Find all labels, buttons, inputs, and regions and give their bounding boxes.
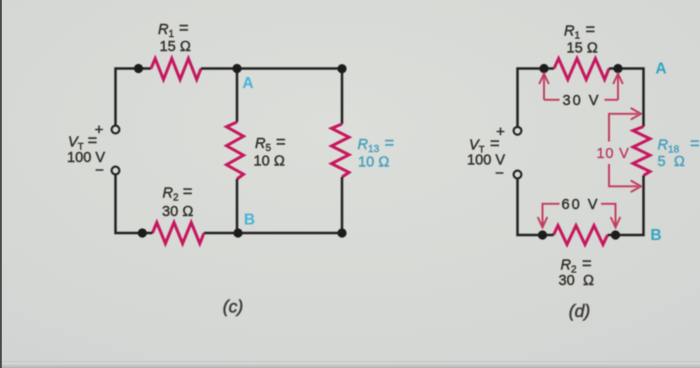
svg-text:100 V: 100 V xyxy=(67,150,105,166)
source VT negative terminal (c) open circle xyxy=(112,167,120,175)
resistor R13 (c) zigzag xyxy=(332,124,350,177)
junction dot (d) top-left xyxy=(539,64,548,73)
svg-text:=: = xyxy=(183,183,193,201)
svg-text:(c): (c) xyxy=(223,297,243,317)
junction dot (c) bottom-right corner xyxy=(337,228,346,237)
value label R1 = 15 ohm (d) xyxy=(564,21,598,57)
wire: (c) top rail from R1 to top-right corner xyxy=(201,67,342,70)
wire: (c) middle branch upper xyxy=(236,69,239,123)
svg-text:100 V: 100 V xyxy=(467,153,505,169)
svg-text:5 Ω: 5 Ω xyxy=(658,154,685,170)
resistor R2 (c) zigzag xyxy=(153,223,205,244)
wire: (c) middle branch lower xyxy=(236,179,239,233)
svg-text:=: = xyxy=(490,135,500,153)
voltage annotation 60 V arrows above R2 (d) xyxy=(538,204,621,228)
resistor R18 (d) zigzag xyxy=(633,127,650,176)
svg-text:=: = xyxy=(88,132,98,150)
svg-text:10 Ω: 10 Ω xyxy=(358,155,390,171)
svg-text:10 V: 10 V xyxy=(597,146,630,162)
wire: (c) right rail upper xyxy=(341,69,344,125)
voltage annotation 30 V arrows under R1 (d) xyxy=(539,74,623,100)
svg-text:=: = xyxy=(690,135,700,153)
value label R13 = 10 ohm (c) blue xyxy=(358,135,395,171)
svg-text:10 Ω: 10 Ω xyxy=(254,153,286,169)
svg-text:30 Ω: 30 Ω xyxy=(559,273,595,289)
source VT negative terminal (d) open circle xyxy=(514,171,522,179)
resistor R1 (d) zigzag xyxy=(554,59,609,80)
value label R18 = 5 ohm (d) blue xyxy=(658,135,700,170)
svg-text:A: A xyxy=(655,61,666,78)
wire: (c) bottom rail left of R2 + left rail lower xyxy=(116,175,153,233)
junction dot (d) bottom-right xyxy=(611,230,620,239)
resistor R5 (c) zigzag xyxy=(227,122,244,179)
resistor R2 (d) zigzag xyxy=(554,226,608,245)
junction dot (c) bottom-left xyxy=(138,228,147,237)
svg-text:=: = xyxy=(179,20,189,38)
wire: (c) bottom rail right of R2 xyxy=(204,232,342,235)
source VT positive terminal (d) open circle xyxy=(514,127,522,135)
svg-text:30 V: 30 V xyxy=(563,93,601,109)
svg-text:B: B xyxy=(244,212,255,229)
value label R5 = 10 ohm (c) xyxy=(254,134,286,170)
source VT positive terminal (c) open circle xyxy=(112,126,120,134)
svg-text:B: B xyxy=(650,227,661,244)
svg-text:=: = xyxy=(582,255,592,273)
svg-text:15 Ω: 15 Ω xyxy=(567,41,599,57)
wire: circuit (c) left rail upper + top-left corner xyxy=(116,69,152,126)
source label VT = 100 V (c) xyxy=(67,132,105,166)
junction dot (d) top-right xyxy=(613,64,622,73)
svg-text:A: A xyxy=(242,75,253,92)
wire: (d) bottom rail left of R2 + left rail lower xyxy=(518,178,554,235)
svg-text:30 Ω: 30 Ω xyxy=(162,204,194,220)
svg-text:=: = xyxy=(586,21,596,39)
value label R2 = 30 ohm (d) xyxy=(559,255,595,289)
voltage annotation 10 V bracket arrows toward R18 (d) xyxy=(609,108,641,192)
value label R1 = 15 ohm (c) xyxy=(158,20,191,56)
junction dot (d) bottom-left xyxy=(538,230,547,239)
svg-text:60 V: 60 V xyxy=(562,197,600,213)
wire: (d) right rail lower + bottom-right corner xyxy=(608,176,644,236)
svg-text:15 Ω: 15 Ω xyxy=(160,39,192,55)
resistor R1 (c) zigzag xyxy=(151,59,201,80)
junction dot (c) top-left xyxy=(134,64,143,73)
svg-text:=: = xyxy=(385,135,395,153)
svg-text:(d): (d) xyxy=(569,301,590,321)
svg-text:=: = xyxy=(276,134,286,152)
wire: (d) top rail from R1 + top-right corner + right rail upper xyxy=(609,69,644,127)
wire: circuit (d) left rail upper + top-left corner xyxy=(518,69,555,127)
source label VT = 100 V (d) xyxy=(467,135,505,169)
node A junction dot (c) xyxy=(232,64,241,73)
junction dot (c) top-right corner xyxy=(337,64,346,73)
wire: (c) right rail lower xyxy=(341,177,344,233)
value label R2 = 30 ohm (c) xyxy=(162,183,194,220)
node B junction dot (c) xyxy=(233,228,242,237)
